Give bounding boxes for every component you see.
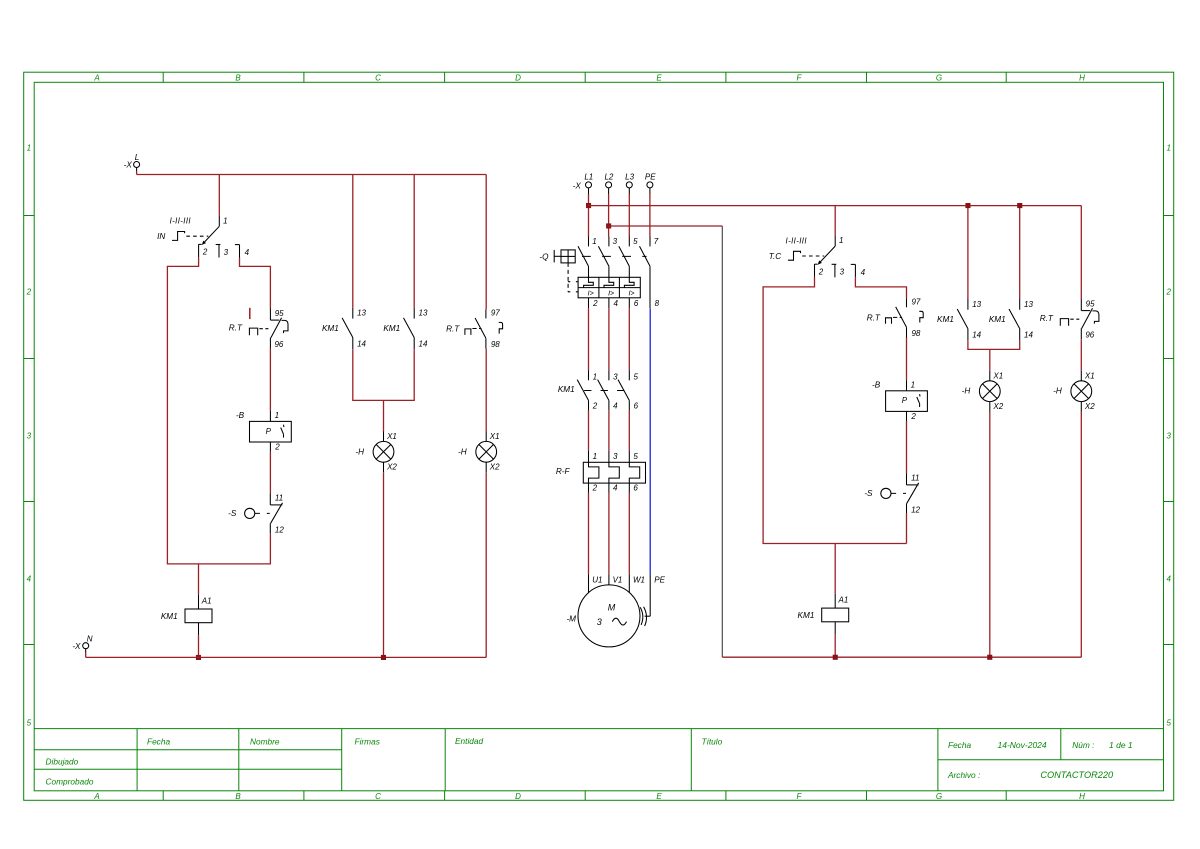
wire PE to breaker pin7 — [649, 194, 651, 237]
svg-text:X1: X1 — [1084, 371, 1095, 380]
svg-text:1 de 1: 1 de 1 — [1109, 740, 1133, 750]
svg-text:C: C — [375, 74, 381, 83]
svg-text:Entidad: Entidad — [455, 736, 484, 746]
svg-text:A: A — [93, 74, 99, 83]
wire KM1 2 to RF 1 — [588, 410, 590, 450]
svg-text:X2: X2 — [489, 463, 500, 472]
svg-text:3: 3 — [224, 248, 229, 257]
svg-text:P: P — [266, 427, 272, 436]
svg-text:D: D — [515, 74, 521, 83]
svg-text:-H: -H — [962, 387, 971, 396]
wire breaker 2 to KM1 1 — [588, 308, 590, 370]
svg-text:G: G — [936, 792, 942, 801]
junction KM1 coil at N bus — [196, 655, 201, 660]
svg-text:PE: PE — [654, 575, 665, 584]
wire right bottom bus — [722, 656, 1081, 658]
wire left bottom bus N — [86, 656, 487, 658]
wire lamp H1 to bottom bus (right) — [989, 412, 991, 658]
svg-text:5: 5 — [633, 237, 638, 246]
svg-text:2: 2 — [26, 288, 32, 297]
svg-text:KM1: KM1 — [383, 324, 400, 333]
svg-text:2: 2 — [818, 268, 824, 277]
svg-text:A1: A1 — [201, 597, 212, 606]
wire lamp H1 feed — [383, 400, 385, 431]
wire KM1 coil to bottom bus (right) — [834, 634, 836, 657]
cam switch T.C selector (I-II-III selector) — [788, 236, 856, 278]
svg-text:1: 1 — [839, 236, 843, 245]
svg-text:14: 14 — [357, 339, 366, 348]
svg-text:R-F: R-F — [556, 467, 571, 476]
svg-text:14: 14 — [972, 331, 981, 340]
svg-text:4: 4 — [613, 299, 618, 308]
wire PE conductor (blue) — [649, 308, 651, 574]
svg-text:1: 1 — [1166, 144, 1170, 153]
wire RT98 to coil -B (right) — [906, 338, 908, 381]
svg-text:R.T: R.T — [867, 313, 881, 322]
svg-text:95: 95 — [275, 309, 284, 318]
indicator lamp -H X1-X2 — [979, 371, 1000, 412]
svg-text:T.C: T.C — [769, 252, 782, 261]
svg-text:I-II-III: I-II-III — [170, 217, 192, 226]
svg-text:I-II-III: I-II-III — [786, 237, 808, 246]
svg-text:X1: X1 — [386, 432, 397, 441]
svg-text:2: 2 — [592, 484, 598, 493]
svg-text:X2: X2 — [992, 402, 1003, 411]
thermal relay NO contact R.T 97-98 — [886, 298, 924, 337]
svg-text:5: 5 — [633, 452, 638, 461]
svg-text:B: B — [235, 74, 241, 83]
svg-text:1: 1 — [911, 381, 915, 390]
svg-text:E: E — [656, 74, 662, 83]
svg-text:I>: I> — [628, 290, 634, 297]
wire pushbutton -S to node — [269, 533, 271, 564]
svg-text:4: 4 — [861, 268, 866, 277]
junction aux1 tap — [965, 203, 970, 208]
svg-text:3: 3 — [613, 373, 618, 382]
wire lamp H2 to bottom bus — [485, 472, 487, 657]
svg-text:7: 7 — [654, 237, 659, 246]
svg-text:3: 3 — [840, 268, 845, 277]
wire drop to KM1 aux 1 — [352, 175, 354, 308]
NO contact KM1 13-14 — [957, 299, 968, 340]
svg-text:5: 5 — [27, 719, 32, 728]
wire drop to cam switch IN — [218, 175, 220, 216]
svg-text:12: 12 — [911, 505, 920, 514]
wire L feed to top bus — [136, 171, 138, 175]
svg-text:Fecha: Fecha — [147, 737, 170, 747]
svg-text:Comprobado: Comprobado — [46, 777, 94, 787]
NO contact KM1 13-14 — [404, 308, 415, 349]
svg-text:14: 14 — [419, 339, 428, 348]
junction L1 tap — [586, 203, 591, 208]
svg-text:Núm :: Núm : — [1072, 740, 1094, 750]
svg-text:98: 98 — [911, 329, 920, 338]
svg-text:Fecha: Fecha — [948, 740, 971, 750]
svg-text:1: 1 — [593, 373, 597, 382]
pushbutton -S NC 11-12 — [245, 493, 283, 533]
svg-text:3: 3 — [27, 432, 32, 441]
junction KM1 coil at bottom bus (right) — [833, 655, 838, 660]
svg-text:-S: -S — [228, 509, 237, 518]
terminal -X L2 — [606, 182, 612, 194]
wire RF 4 to motor V1 — [608, 493, 610, 575]
svg-text:Archivo :: Archivo : — [947, 770, 980, 780]
svg-text:L3: L3 — [625, 172, 634, 181]
wire left top bus L — [137, 174, 487, 176]
svg-text:Nombre: Nombre — [250, 737, 280, 747]
svg-text:4: 4 — [613, 402, 618, 411]
thermal relay NC contact R.T 95-96 — [1060, 299, 1099, 339]
junction aux2 tap — [1017, 203, 1022, 208]
NO contact KM1 13-14 — [342, 308, 353, 349]
svg-text:Título: Título — [702, 737, 723, 747]
pushbutton -S NC 11-12 — [881, 473, 919, 513]
thermal relay NO contact R.T 97-98 — [465, 309, 503, 348]
svg-text:1: 1 — [275, 411, 279, 420]
svg-text:1: 1 — [592, 237, 596, 246]
wire breaker 4 to KM1 3 — [608, 308, 610, 370]
svg-text:12: 12 — [275, 525, 284, 534]
svg-text:-M: -M — [566, 614, 576, 623]
svg-text:6: 6 — [634, 299, 639, 308]
motor breaker -Q — [554, 237, 650, 309]
svg-text:14-Nov-2024: 14-Nov-2024 — [998, 740, 1047, 750]
svg-text:C: C — [375, 792, 381, 801]
svg-text:3: 3 — [613, 237, 618, 246]
wire node to KM1 coil (right) — [834, 544, 836, 594]
svg-text:L1: L1 — [584, 172, 593, 181]
svg-text:1: 1 — [223, 216, 227, 225]
svg-text:98: 98 — [491, 340, 500, 349]
junction lamp H1 at bottom bus (right) — [987, 655, 992, 660]
title block — [34, 729, 1163, 791]
wire aux merge to lamp H1 (right) — [968, 340, 1020, 349]
svg-text:97: 97 — [911, 297, 920, 306]
svg-text:A: A — [93, 792, 99, 801]
motor -M (3~ asynchronous) — [578, 574, 650, 647]
svg-text:-H: -H — [355, 447, 364, 456]
wire cam pin4 to RT95 branch — [240, 258, 271, 309]
svg-text:-H: -H — [1053, 387, 1062, 396]
svg-text:P: P — [902, 396, 908, 405]
wire lamp H1 to bottom bus — [383, 472, 385, 657]
svg-text:13: 13 — [1024, 300, 1033, 309]
svg-text:X1: X1 — [489, 432, 500, 441]
NO contact KM1 13-14 — [1009, 299, 1020, 340]
wire lamp H2 to bottom bus (right) — [1080, 412, 1082, 658]
wire node to KM1 coil — [198, 564, 200, 595]
wire N feed to bottom bus — [85, 653, 87, 658]
svg-text:6: 6 — [633, 484, 638, 493]
wire L2 bus to return riser — [609, 225, 723, 227]
svg-text:2: 2 — [202, 248, 208, 257]
thermal relay NC contact R.T 95-96 — [249, 309, 288, 349]
svg-text:A1: A1 — [838, 596, 849, 605]
contactor KM1 main poles — [577, 370, 629, 410]
pressure switch coil -B (P box) — [250, 411, 292, 452]
wire cam pin2 to left loop (right) — [763, 277, 906, 544]
svg-text:8: 8 — [655, 299, 660, 308]
svg-text:2: 2 — [592, 402, 598, 411]
contactor coil KM1 A1-A2 — [822, 594, 849, 635]
svg-text:D: D — [515, 792, 521, 801]
wire breaker 6 to KM1 5 — [628, 308, 630, 370]
svg-text:-S: -S — [864, 489, 873, 498]
svg-text:11: 11 — [275, 494, 283, 503]
svg-text:N: N — [87, 634, 93, 643]
svg-text:2: 2 — [910, 412, 916, 421]
wire coil -B to pushbutton -S — [269, 452, 271, 494]
svg-text:14: 14 — [1024, 331, 1033, 340]
cam switch IN selector (I-II-III selector) — [172, 216, 240, 258]
wire cam pin4 to RT97 branch (right) — [855, 277, 906, 298]
red stub mark — [249, 308, 251, 319]
wire L1 to breaker pin1 — [588, 194, 590, 237]
svg-text:G: G — [936, 74, 942, 83]
wire KM1 coil to N bus — [198, 635, 200, 657]
svg-text:1: 1 — [27, 144, 31, 153]
contactor coil KM1 A1-A2 — [185, 595, 212, 636]
svg-text:L2: L2 — [604, 172, 613, 181]
svg-text:-X: -X — [573, 182, 582, 191]
svg-text:W1: W1 — [633, 575, 645, 584]
svg-text:13: 13 — [972, 300, 981, 309]
junction L2 tap — [606, 223, 611, 228]
svg-text:I>: I> — [588, 290, 594, 297]
svg-text:-Q: -Q — [539, 252, 549, 261]
svg-text:4: 4 — [245, 248, 250, 257]
wire drop to KM1 aux 2 — [413, 175, 415, 308]
svg-text:97: 97 — [491, 309, 500, 318]
wire KM1 4 to RF 3 — [608, 410, 610, 450]
svg-text:-X: -X — [72, 642, 81, 651]
junction lamp H1 at bottom bus — [381, 655, 386, 660]
svg-text:IN: IN — [157, 232, 165, 241]
terminal -X L (line) — [134, 162, 140, 172]
wire L1 bus to right circuit — [589, 205, 1082, 207]
svg-text:-B: -B — [872, 380, 881, 389]
svg-text:CONTACTOR220: CONTACTOR220 — [1040, 770, 1114, 780]
svg-text:KM1: KM1 — [322, 324, 339, 333]
svg-text:KM1: KM1 — [161, 612, 178, 621]
pressure switch coil -B (P box) — [886, 380, 928, 421]
svg-text:I>: I> — [608, 290, 614, 297]
svg-text:U1: U1 — [592, 575, 602, 584]
svg-text:KM1: KM1 — [989, 315, 1006, 324]
wire lamp H1 feed (right) — [989, 349, 991, 371]
wire pushbutton -S to node (right) — [906, 513, 908, 543]
svg-text:1: 1 — [593, 452, 597, 461]
svg-text:X2: X2 — [386, 463, 397, 472]
wire RF 6 to motor W1 — [628, 493, 630, 575]
wire drop to KM1 aux 2 (right) — [1019, 206, 1021, 299]
wire L3 to breaker pin5 — [628, 194, 630, 237]
wire RF 2 to motor U1 — [588, 493, 590, 575]
svg-text:E: E — [656, 792, 662, 801]
indicator lamp -H X1-X2 — [476, 432, 497, 473]
wire aux merge to lamp H1 — [353, 349, 414, 400]
svg-text:96: 96 — [274, 340, 283, 349]
wire RT98 to lamp H2 — [485, 349, 487, 432]
svg-text:R.T: R.T — [229, 323, 243, 332]
svg-text:L: L — [135, 153, 139, 162]
svg-text:M: M — [608, 603, 616, 613]
svg-text:11: 11 — [911, 474, 919, 483]
terminal -X L3 — [626, 182, 632, 194]
wire KM1 6 to RF 5 — [628, 410, 630, 450]
svg-text:X2: X2 — [1084, 402, 1095, 411]
svg-text:3: 3 — [597, 617, 602, 627]
svg-text:4: 4 — [27, 575, 32, 584]
wire RT96 to lamp H2 (right) — [1080, 339, 1082, 371]
wire drop to cam switch T.C — [834, 206, 836, 236]
svg-text:-X: -X — [124, 161, 133, 170]
wire coil -B to pushbutton -S (right) — [906, 421, 908, 473]
svg-text:2: 2 — [1165, 288, 1171, 297]
svg-text:KM1: KM1 — [937, 315, 954, 324]
svg-text:R.T: R.T — [446, 325, 460, 334]
wire RT96 to coil -B — [269, 349, 271, 411]
wire drop to RT95 branch (right) — [1080, 206, 1082, 299]
terminal -X L1 — [586, 182, 592, 194]
svg-text:H: H — [1079, 792, 1085, 801]
svg-text:R.T: R.T — [1040, 314, 1054, 323]
terminal -X PE — [647, 182, 653, 194]
svg-text:5: 5 — [633, 373, 638, 382]
svg-text:4: 4 — [1166, 575, 1171, 584]
indicator lamp -H X1-X2 — [1071, 371, 1092, 412]
svg-text:4: 4 — [613, 484, 618, 493]
svg-text:Dibujado: Dibujado — [46, 757, 79, 767]
svg-text:KM1: KM1 — [798, 611, 815, 620]
svg-text:2: 2 — [274, 443, 280, 452]
svg-text:6: 6 — [634, 402, 639, 411]
svg-text:95: 95 — [1086, 300, 1095, 309]
svg-text:96: 96 — [1085, 330, 1094, 339]
svg-text:-H: -H — [458, 447, 467, 456]
wire drop to RT97 branch — [485, 175, 487, 310]
indicator lamp -H X1-X2 — [373, 432, 394, 473]
svg-text:B: B — [235, 792, 241, 801]
svg-text:3: 3 — [613, 452, 618, 461]
wire drop to KM1 aux 1 (right) — [967, 206, 969, 299]
svg-text:KM1: KM1 — [558, 385, 575, 394]
svg-text:3: 3 — [1166, 432, 1171, 441]
svg-text:Firmas: Firmas — [355, 737, 380, 747]
svg-text:13: 13 — [357, 309, 366, 318]
thermal relay R-F element — [583, 451, 645, 493]
svg-text:2: 2 — [592, 299, 598, 308]
terminal -X N (neutral) — [83, 643, 89, 653]
svg-text:V1: V1 — [613, 575, 623, 584]
svg-text:PE: PE — [645, 172, 656, 181]
svg-text:-B: -B — [236, 411, 245, 420]
wire L2 to breaker pin3 — [608, 194, 610, 237]
wire return riser (gray) — [721, 226, 723, 657]
wire cam pin2 to left loop — [167, 257, 271, 564]
svg-text:13: 13 — [419, 309, 428, 318]
svg-text:X1: X1 — [992, 371, 1003, 380]
svg-text:H: H — [1079, 74, 1085, 83]
svg-text:5: 5 — [1166, 719, 1171, 728]
